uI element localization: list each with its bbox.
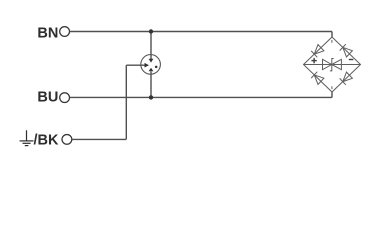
svg-text:BU: BU (37, 90, 58, 106)
svg-text:/BK: /BK (34, 133, 60, 149)
svg-text:BN: BN (37, 25, 58, 41)
